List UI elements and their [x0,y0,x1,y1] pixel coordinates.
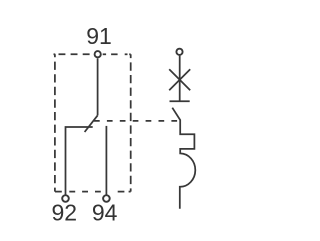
svg-text:91: 91 [86,23,112,49]
svg-text:94: 94 [92,200,118,226]
svg-text:92: 92 [52,200,78,226]
